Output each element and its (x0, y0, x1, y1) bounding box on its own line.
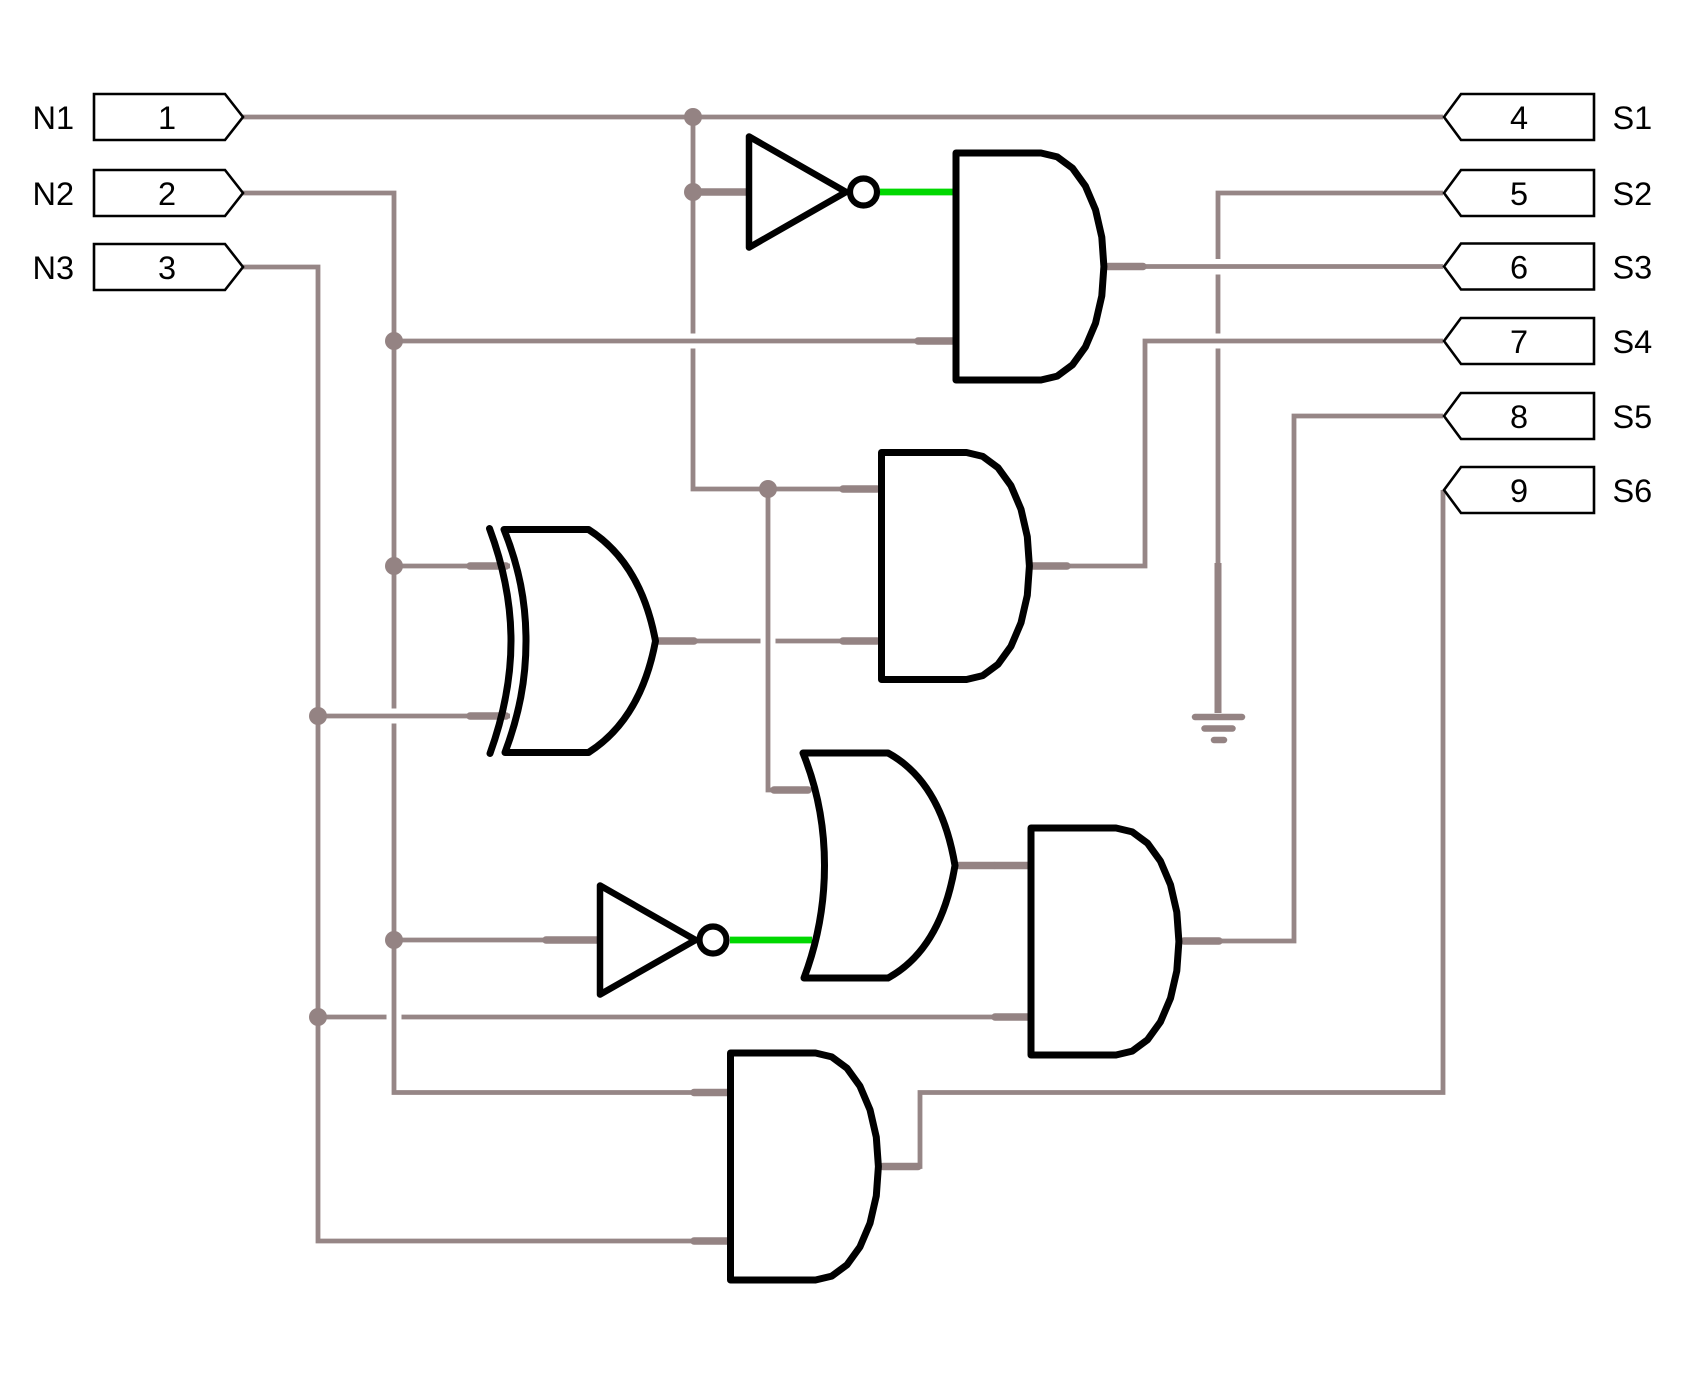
svg-text:N2: N2 (33, 176, 75, 212)
svg-text:1: 1 (158, 100, 176, 136)
svg-text:S6: S6 (1613, 473, 1653, 509)
svg-text:S2: S2 (1613, 176, 1653, 212)
svg-text:7: 7 (1510, 324, 1528, 360)
svg-text:S3: S3 (1613, 250, 1653, 286)
svg-text:S1: S1 (1613, 100, 1653, 136)
svg-text:6: 6 (1510, 250, 1528, 286)
svg-text:3: 3 (158, 250, 176, 286)
svg-text:N3: N3 (33, 250, 75, 286)
svg-text:2: 2 (158, 176, 176, 212)
svg-text:5: 5 (1510, 176, 1528, 212)
svg-text:S5: S5 (1613, 399, 1653, 435)
svg-text:9: 9 (1510, 473, 1528, 509)
svg-text:S4: S4 (1613, 324, 1653, 360)
svg-text:8: 8 (1510, 399, 1528, 435)
svg-text:4: 4 (1510, 100, 1528, 136)
svg-text:N1: N1 (33, 100, 75, 136)
